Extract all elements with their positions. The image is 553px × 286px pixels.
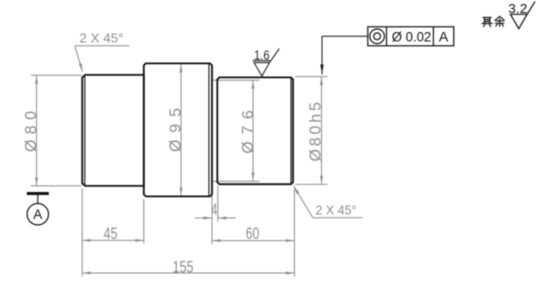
svg-text:Ø95: Ø95 xyxy=(167,108,184,152)
svg-text:3.2: 3.2 xyxy=(508,1,527,16)
svg-text:2 X 45°: 2 X 45° xyxy=(316,203,357,218)
svg-text:4: 4 xyxy=(211,201,217,219)
svg-text:Ø 0.02: Ø 0.02 xyxy=(392,29,432,45)
svg-text:A: A xyxy=(439,29,449,45)
svg-text:A: A xyxy=(33,207,42,222)
svg-text:1.6: 1.6 xyxy=(254,48,270,63)
svg-text:Ø76: Ø76 xyxy=(240,110,257,154)
svg-text:2 X 45°: 2 X 45° xyxy=(80,30,124,45)
svg-text:155: 155 xyxy=(173,259,194,277)
svg-text:Ø80: Ø80 xyxy=(23,111,40,152)
svg-text:60: 60 xyxy=(246,225,260,243)
svg-text:45: 45 xyxy=(104,225,118,243)
svg-text:Ø80h5: Ø80h5 xyxy=(308,102,325,162)
